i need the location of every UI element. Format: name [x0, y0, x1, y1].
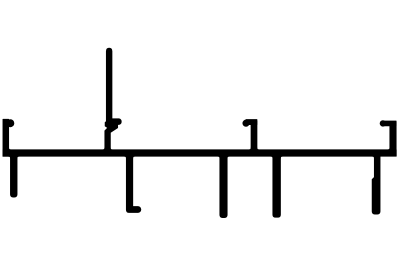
fillet stem left/bar [103, 148, 105, 150]
fillet leg1 left [9, 156, 11, 158]
base bar [3, 150, 396, 156]
fillet leg1 right [17, 156, 19, 158]
fillet leg4 left [271, 156, 273, 158]
leg 5 with left step [372, 155, 380, 214]
fillet leg2 right [133, 156, 135, 158]
fillet leg5 left [373, 156, 375, 158]
left flange nub [7, 120, 14, 127]
left flange vertical [3, 119, 9, 156]
fillet leg3 left [218, 156, 220, 158]
leg 4 [273, 155, 281, 217]
center stem with side nub [105, 48, 121, 156]
mid flange arm [246, 120, 257, 125]
leg 3 [220, 155, 227, 218]
fillet leg3 right [227, 156, 229, 158]
fillet stem right/bar [110, 148, 112, 150]
leg 1 [11, 155, 18, 197]
mid flange vertical [251, 121, 257, 156]
right flange arm [383, 121, 397, 126]
right flange arm rounded end [380, 121, 386, 127]
fillet mid flange right/bar [257, 148, 259, 150]
leg 2 with right foot [126, 155, 140, 212]
fillet left flange/bar [9, 148, 11, 150]
fillet right flange/bar [388, 148, 390, 150]
fillet leg4 right [280, 156, 282, 158]
mid flange arm rounded end [243, 120, 249, 126]
right flange vertical [390, 122, 396, 156]
fillet mid flange left/bar [249, 148, 251, 150]
fillet leg2 left [125, 156, 127, 158]
